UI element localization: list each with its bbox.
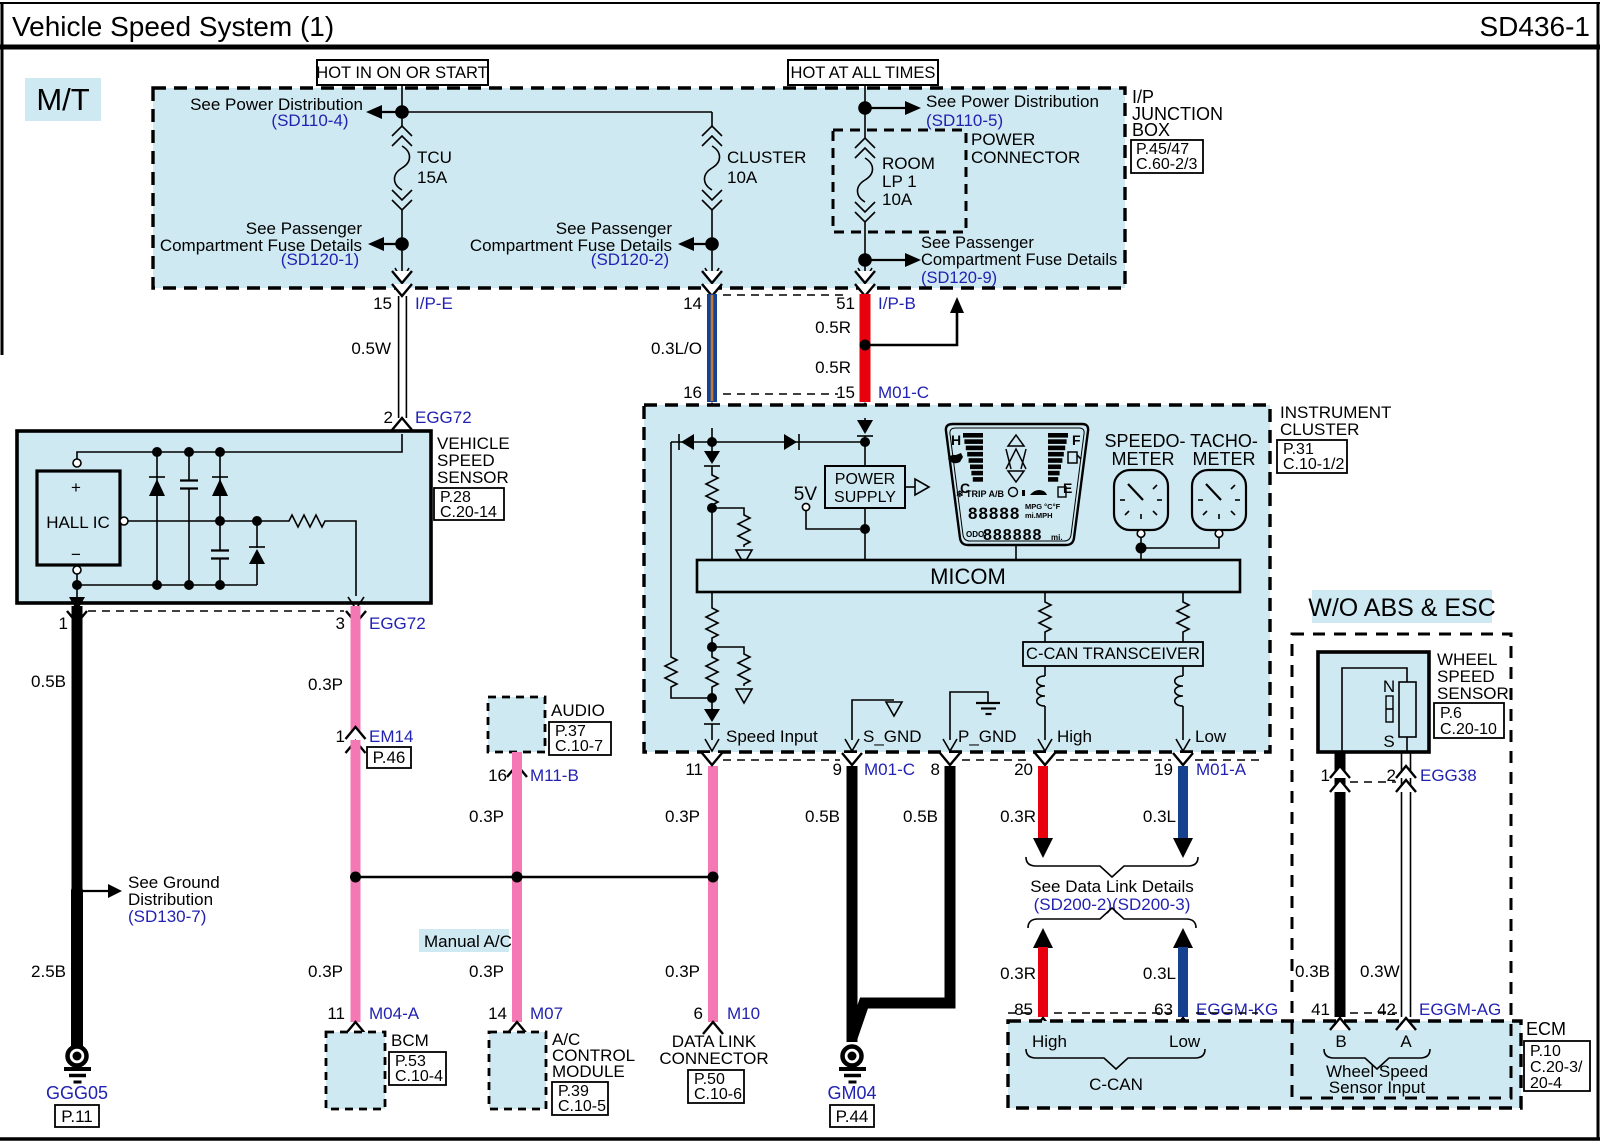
pin 14 exit arrow (683, 268, 722, 313)
node mid rail at D2 column (215, 516, 225, 526)
arrow to See Passenger Compartment Fuse Details (SD120-2) (470, 219, 712, 269)
svg-text:15: 15 (836, 383, 855, 402)
pin 16 M11-B under AUDIO (488, 765, 579, 785)
svg-text:85: 85 (1014, 1000, 1033, 1019)
svg-text:CONNECTOR: CONNECTOR (971, 148, 1080, 167)
diode D1 column (149, 452, 165, 585)
instrument cluster box (644, 405, 1270, 752)
terminal circle bottom of HALL IC (73, 566, 81, 574)
HOT AT ALL TIMES box (788, 60, 938, 85)
svg-text:mi.MPH: mi.MPH (1025, 511, 1053, 520)
M/T label (25, 78, 101, 121)
svg-text:MPG °C°F: MPG °C°F (1025, 502, 1061, 511)
wire 0.3P speed input to M10 (665, 766, 713, 1022)
pin 20 High exit (1035, 727, 1092, 765)
svg-text:51: 51 (836, 294, 855, 313)
I/P junction box (dashed) (153, 88, 1125, 288)
wire power supply to MICOM (864, 508, 866, 560)
pin 51 I/P-B exit arrow (836, 268, 916, 313)
top rail in cluster (671, 441, 865, 443)
svg-text:(SD120-1): (SD120-1) (281, 250, 359, 269)
pin 14 M07 (488, 1004, 563, 1034)
node: SD110-5 junction (858, 101, 872, 115)
svg-text:(SD130-7): (SD130-7) (128, 907, 206, 926)
node data link tie at DLC wire (708, 872, 719, 883)
pin labels below cluster (685, 760, 1246, 779)
svg-text:BCM: BCM (391, 1031, 429, 1050)
svg-text:6: 6 (694, 1004, 703, 1023)
svg-text:GGG05: GGG05 (46, 1083, 108, 1103)
node below R2 (707, 503, 717, 513)
C-CAN TRANSCEIVER box (1023, 642, 1203, 666)
wire 0.3P EM14 to M04-A (308, 740, 355, 1022)
node data link tie at BCM wire (350, 872, 361, 883)
svg-text:ECM: ECM (1526, 1019, 1566, 1039)
arrow to See Power Distribution (SD110-4) (190, 95, 402, 130)
LCD display module (946, 424, 1088, 545)
node rail at power column (860, 437, 870, 447)
svg-text:0.3P: 0.3P (665, 807, 700, 826)
svg-text:C.10-5: C.10-5 (558, 1098, 606, 1115)
resistor R1 horizontal (287, 515, 327, 527)
svg-text:1: 1 (1321, 766, 1330, 785)
svg-text:POWER: POWER (971, 130, 1035, 149)
svg-text:GM04: GM04 (827, 1083, 876, 1103)
svg-text:METER: METER (1193, 449, 1256, 469)
svg-text:See Passenger: See Passenger (921, 234, 1034, 252)
svg-text:Compartment Fuse Details: Compartment Fuse Details (921, 251, 1117, 269)
svg-text:B: B (1335, 1032, 1346, 1051)
AUDIO box (488, 697, 611, 755)
node bottom rail 1 (152, 580, 162, 590)
wire 0.3B sensor pin1 to pin41 (1295, 752, 1340, 1017)
svg-text:+: + (71, 478, 81, 497)
resistor R8 CAN high (1039, 592, 1051, 642)
svg-text:See Data Link Details: See Data Link Details (1030, 877, 1193, 896)
brace see data link upper (1026, 857, 1198, 877)
svg-text:MODULE: MODULE (552, 1062, 625, 1081)
svg-text:20-4: 20-4 (1530, 1075, 1562, 1092)
speedometer gauge (1114, 470, 1168, 537)
wheel speed sensor box (1318, 652, 1429, 752)
arrow to See Power Distribution (SD110-5) (865, 92, 1099, 130)
P_GND hook and pin 8 (940, 692, 1017, 765)
svg-text:C-CAN TRANSCEIVER: C-CAN TRANSCEIVER (1026, 645, 1200, 663)
svg-text:MICOM: MICOM (930, 564, 1006, 589)
svg-text:0.3P: 0.3P (665, 962, 700, 981)
svg-text:C.10-7: C.10-7 (555, 738, 603, 755)
A/C control module box (489, 1030, 635, 1115)
node top rail 3 (215, 447, 225, 457)
svg-text:C.10-4: C.10-4 (395, 1068, 443, 1085)
svg-text:M04-A: M04-A (369, 1004, 420, 1023)
INSTRUMENT CLUSTER label (1277, 403, 1391, 473)
svg-text:2.5B: 2.5B (31, 962, 66, 981)
node bypass join (707, 693, 717, 703)
svg-text:POWER: POWER (835, 471, 895, 488)
capacitor C1 column (180, 452, 198, 585)
svg-text:0.5R: 0.5R (815, 358, 851, 377)
gauge wires to MICOM (1141, 537, 1219, 560)
svg-text:0.5B: 0.5B (31, 672, 66, 691)
connector dashes EGG72 row (88, 610, 344, 612)
WHEEL SPEED SENSOR label (1434, 650, 1509, 738)
svg-text:0.3P: 0.3P (308, 962, 343, 981)
BCM box (326, 1031, 446, 1109)
pin 63 EGGM-KG (1154, 1000, 1278, 1030)
svg-text:High: High (1057, 727, 1092, 746)
diode D6 on power column (857, 418, 873, 442)
brace see data link lower (1028, 908, 1196, 928)
svg-text:88888: 88888 (968, 504, 1020, 523)
svg-text:HOT IN ON OR START: HOT IN ON OR START (316, 64, 487, 82)
svg-text:BOX: BOX (1132, 120, 1170, 140)
svg-text:C.20-3/: C.20-3/ (1530, 1059, 1583, 1076)
svg-text:S_GND: S_GND (863, 727, 922, 746)
svg-text:(SD120-2): (SD120-2) (591, 250, 669, 269)
5V terminal (794, 484, 860, 529)
svg-text:14: 14 (683, 294, 702, 313)
branch resistor R3 with arrow (712, 508, 752, 564)
svg-text:AUDIO: AUDIO (551, 701, 605, 720)
top rail wire to pin 2 (77, 434, 402, 459)
svg-text:P.46: P.46 (373, 748, 406, 767)
svg-text:15: 15 (373, 294, 392, 313)
pin 16 into instrument cluster (702, 404, 722, 440)
svg-text:5V: 5V (794, 484, 818, 505)
svg-text:SPEEDO-: SPEEDO- (1104, 431, 1185, 451)
pin 15 M01-C into instrument cluster (855, 404, 875, 429)
POWER CONNECTOR box (dashed) (833, 130, 1080, 232)
svg-text:16: 16 (488, 766, 507, 785)
svg-text:(SD110-5): (SD110-5) (926, 111, 1003, 130)
node rail at speed column (707, 437, 717, 447)
svg-text:0.3L/O: 0.3L/O (651, 339, 702, 358)
wire 0.5B pin 8 bend to GM04 (852, 766, 950, 1038)
ground GGG05 (46, 1047, 108, 1128)
node ground distribution (71, 885, 83, 897)
svg-text:N: N (1383, 677, 1395, 696)
wire 0.3L CAN low lower (1143, 928, 1193, 1017)
svg-text:EGG72: EGG72 (369, 614, 426, 633)
node top rail 2 (184, 447, 194, 457)
power supply output buffer triangle (905, 479, 929, 495)
svg-text:F: F (1072, 432, 1081, 448)
svg-text:SENSOR: SENSOR (1437, 684, 1509, 703)
terminal circle top of HALL IC (73, 459, 81, 467)
svg-text:M01-C: M01-C (878, 383, 929, 402)
resistor R9 CAN low (1177, 592, 1189, 642)
svg-text:11: 11 (327, 1004, 345, 1023)
wire 0.3L CAN low upper (1143, 766, 1193, 858)
diode D5 right on rail (784, 434, 799, 450)
svg-text:Sensor Input: Sensor Input (1329, 1078, 1426, 1097)
svg-text:20: 20 (1014, 760, 1033, 779)
tachometer gauge (1192, 470, 1246, 537)
bottom rail (77, 574, 257, 585)
svg-text:Low: Low (1169, 1032, 1201, 1051)
svg-text:14: 14 (488, 1004, 507, 1023)
svg-text:SUPPLY: SUPPLY (834, 489, 896, 506)
svg-text:0.3B: 0.3B (1295, 962, 1330, 981)
svg-text:10A: 10A (882, 190, 913, 209)
svg-text:ODO: ODO (966, 530, 984, 539)
svg-text:(SD200-2)(SD200-3): (SD200-2)(SD200-3) (1034, 895, 1191, 914)
B A labels (1335, 1032, 1412, 1051)
brace wheel speed sensor input (1324, 1049, 1430, 1097)
node 5V join (860, 524, 870, 534)
wire 0.3L/O pin14 to pin16 (651, 294, 712, 402)
svg-text:0.5R: 0.5R (815, 318, 851, 337)
node gauge join (1136, 543, 1147, 554)
svg-text:1: 1 (336, 727, 345, 746)
wire from HOT AT ALL TIMES to ROOM fuse (864, 85, 866, 138)
svg-text:P.44: P.44 (836, 1107, 869, 1126)
pin 3 EGG72 exit of sensor (336, 597, 426, 633)
svg-text:S: S (1383, 732, 1394, 751)
branch arrow up from 0.5R node (869, 297, 964, 345)
arrow See Ground Distribution (SD130-7) (77, 873, 220, 926)
mid rail from HALL IC (128, 520, 287, 522)
node bottom rail 3 (215, 580, 225, 590)
svg-text:19: 19 (1154, 760, 1173, 779)
sheet number SD436-1 (1479, 11, 1590, 42)
node on 0.5R wire (860, 340, 871, 351)
below-MICOM speed column resistor R5 (706, 592, 718, 655)
wire below ROOM fuse (864, 222, 866, 278)
svg-text:0.3P: 0.3P (469, 962, 504, 981)
svg-text:9: 9 (833, 760, 842, 779)
HOT IN ON OR START box (316, 60, 488, 85)
svg-text:ROOM: ROOM (882, 154, 935, 173)
wire 0.3R CAN high lower (1000, 928, 1053, 1017)
svg-text:0.3R: 0.3R (1000, 807, 1036, 826)
svg-text:888888: 888888 (983, 527, 1042, 544)
svg-text:10A: 10A (727, 168, 758, 187)
ECM box (1008, 1021, 1521, 1108)
svg-text:❄: ❄ (956, 489, 964, 499)
pin 11 Speed Input exit (702, 727, 818, 765)
svg-text:11: 11 (685, 760, 703, 779)
svg-text:LP 1: LP 1 (882, 172, 917, 191)
svg-text:1: 1 (59, 614, 68, 633)
connector dashes I/P row (723, 295, 845, 394)
svg-text:I/P-E: I/P-E (415, 294, 453, 313)
wire pin16 down to rail (711, 428, 713, 442)
svg-text:C.20-10: C.20-10 (1440, 721, 1497, 738)
VEHICLE SPEED SENSOR label (434, 434, 510, 521)
wire 0.5B to ground (31, 606, 77, 892)
svg-text:0.5B: 0.5B (903, 807, 938, 826)
wire below TCU fuse (401, 210, 403, 278)
svg-text:High: High (1032, 1032, 1067, 1051)
svg-text:15A: 15A (417, 168, 448, 187)
node top rail 1 (152, 447, 162, 457)
svg-text:CONNECTOR: CONNECTOR (659, 1049, 768, 1068)
svg-text:M07: M07 (530, 1004, 563, 1023)
node: SD120-1 junction (395, 237, 409, 251)
node: SD120-9 junction (858, 253, 872, 267)
I/P junction box label (1131, 87, 1223, 173)
connector dashes below cluster (723, 759, 1262, 761)
bypass wire with diode D4 (670, 442, 672, 655)
diode D4 left on rail (679, 434, 694, 450)
svg-text:M11-B: M11-B (530, 766, 579, 785)
wire 0.5B pin 9 to GM04 (805, 766, 852, 1042)
MICOM box (697, 560, 1240, 592)
W/O ABS dashed box (1292, 634, 1511, 1098)
svg-text:EGGM-AG: EGGM-AG (1419, 1000, 1501, 1019)
inline connector EM14 (336, 727, 414, 768)
wire R2 node to MICOM (711, 507, 713, 560)
svg-text:CLUSTER: CLUSTER (727, 148, 806, 167)
svg-text:HALL IC: HALL IC (46, 513, 110, 532)
svg-text:TACHO-: TACHO- (1190, 431, 1258, 451)
svg-text:TRIP A/B: TRIP A/B (966, 489, 1005, 499)
svg-text:SENSOR: SENSOR (437, 468, 509, 487)
svg-text:H: H (951, 432, 961, 448)
vehicle speed sensor box (17, 431, 431, 603)
pin 6 M10 data link connector (659, 1004, 768, 1103)
svg-text:0.3P: 0.3P (469, 807, 504, 826)
diode D3 below mid rail (249, 521, 265, 585)
ECM label (1524, 1019, 1590, 1092)
svg-text:C-CAN: C-CAN (1089, 1075, 1143, 1094)
pin 2 EGG72 (384, 408, 472, 448)
HALL IC box (37, 471, 120, 565)
diode D8 to speed input pin (704, 709, 720, 740)
svg-text:8: 8 (931, 760, 940, 779)
fuse CLUSTER 10A (702, 126, 806, 210)
svg-text:HOT AT ALL TIMES: HOT AT ALL TIMES (791, 64, 936, 82)
brace C-CAN (1026, 1049, 1205, 1094)
svg-text:0.3W: 0.3W (1360, 962, 1400, 981)
svg-text:W/O ABS & ESC: W/O ABS & ESC (1308, 594, 1496, 622)
wire to CLUSTER fuse down (711, 112, 713, 126)
node below R5 (707, 642, 717, 652)
fuse ROOM LP 1 10A (855, 138, 935, 222)
TACHOMETER label (1190, 431, 1258, 469)
svg-text:0.3L: 0.3L (1143, 964, 1176, 983)
svg-text:(SD120-9): (SD120-9) (921, 269, 997, 287)
terminal circle right of HALL IC (120, 517, 128, 525)
SPEEDOMETER label (1104, 431, 1185, 469)
pins 1 2 EGG38 (1321, 766, 1477, 792)
connector dashes EGGM-AG (1350, 1012, 1397, 1014)
LCD wire to MICOM (1015, 545, 1017, 560)
diode D2 column (212, 452, 228, 550)
svg-text:M10: M10 (727, 1004, 760, 1023)
wire resistor to pin 3 (327, 521, 356, 596)
svg-text:16: 16 (683, 383, 702, 402)
svg-text:EGGM-KG: EGGM-KG (1196, 1000, 1278, 1019)
svg-text:M01-C: M01-C (864, 760, 915, 779)
svg-text:Speed Input: Speed Input (726, 727, 818, 746)
svg-text:C.20-14: C.20-14 (440, 504, 497, 521)
svg-text:A: A (1400, 1032, 1412, 1051)
svg-text:P.11: P.11 (61, 1107, 93, 1126)
wheel speed sensor coil internals (1342, 668, 1416, 752)
wire 0.3P from pin 3 to EM14 (308, 606, 355, 738)
svg-text:Low: Low (1195, 727, 1227, 746)
wire 0.3R CAN high upper (1000, 766, 1053, 858)
wire 0.5W (white) pin15 to pin2 (351, 296, 406, 418)
W/O ABS & ESC label (1308, 590, 1496, 623)
inductor L1 high (1037, 666, 1045, 740)
ground GM04 (827, 1047, 876, 1128)
pin 85 High (1014, 1000, 1053, 1030)
resistor R7 speed column (706, 655, 718, 709)
wire 2.5B to ground (31, 890, 77, 1046)
svg-text:METER: METER (1112, 449, 1175, 469)
node: SD120-2 junction (705, 237, 719, 251)
resistor R2 speed column (706, 473, 718, 507)
branch resistor R6 with arrow (712, 647, 752, 703)
svg-text:P.6: P.6 (1440, 705, 1462, 722)
svg-text:EM14: EM14 (369, 727, 413, 746)
resistor R4 on bypass (665, 655, 708, 698)
node bottom rail 0 (72, 580, 82, 590)
C-CAN High Low labels (1032, 1032, 1201, 1051)
svg-text:42: 42 (1377, 1000, 1396, 1019)
node bottom rail 2 (184, 580, 194, 590)
arrow to See Passenger Compartment Fuse Details (SD120-9) (865, 234, 1117, 287)
svg-text:63: 63 (1154, 1000, 1173, 1019)
svg-text:SD436-1: SD436-1 (1479, 11, 1590, 42)
capacitor C2 below mid rail (211, 551, 229, 586)
pin 19 Low exit (1173, 727, 1227, 765)
Manual A/C label (419, 929, 512, 952)
svg-text:0.5B: 0.5B (805, 807, 840, 826)
wire 0.3P M11-B to M07 (469, 752, 517, 1022)
See Data Link Details text (1030, 877, 1193, 914)
S_GND hook and pin 9 (842, 700, 922, 765)
wire pin15 column to power supply (864, 442, 866, 466)
svg-text:M/T: M/T (36, 82, 89, 117)
tie wire across pink columns (355, 876, 713, 878)
svg-text:CLUSTER: CLUSTER (1280, 420, 1359, 439)
connector dashes EGGM row (1008, 1012, 1258, 1014)
connector dashes EGG38 (1350, 781, 1396, 783)
pin 1 exit of sensor (59, 585, 87, 633)
svg-text:C.60-2/3: C.60-2/3 (1136, 156, 1197, 173)
svg-text:M01-A: M01-A (1196, 760, 1247, 779)
svg-text:0.3L: 0.3L (1143, 807, 1176, 826)
diode D7 on speed column (704, 442, 720, 473)
svg-text:0.5W: 0.5W (351, 339, 391, 358)
node: TCU feed junction (395, 105, 409, 119)
svg-text:(SD110-4): (SD110-4) (271, 111, 348, 130)
svg-text:2: 2 (384, 408, 393, 427)
svg-text:41: 41 (1311, 1000, 1330, 1019)
POWER SUPPLY box (825, 466, 905, 508)
wire below CLUSTER fuse (711, 210, 713, 278)
arrow to See Passenger Compartment Fuse Details (SD120-1) (160, 219, 402, 269)
wire TCU feed to CLUSTER fuse (402, 111, 712, 113)
svg-text:−: − (71, 545, 81, 564)
svg-text:C.10-6: C.10-6 (694, 1086, 742, 1103)
svg-text:TCU: TCU (417, 148, 452, 167)
svg-text:0.3R: 0.3R (1000, 964, 1036, 983)
svg-text:0.3P: 0.3P (308, 675, 343, 694)
wire 0.3W sensor pin2 to pin42 (1360, 752, 1411, 1017)
svg-text:Vehicle Speed System (1): Vehicle Speed System (1) (12, 11, 334, 42)
node data link tie at A/C wire (512, 872, 523, 883)
wire from HOT IN ON OR START to TCU fuse (401, 85, 403, 126)
fuse TCU 15A (392, 126, 452, 210)
svg-text:Manual A/C: Manual A/C (424, 932, 512, 951)
pin 11 M04-A (327, 1004, 419, 1034)
